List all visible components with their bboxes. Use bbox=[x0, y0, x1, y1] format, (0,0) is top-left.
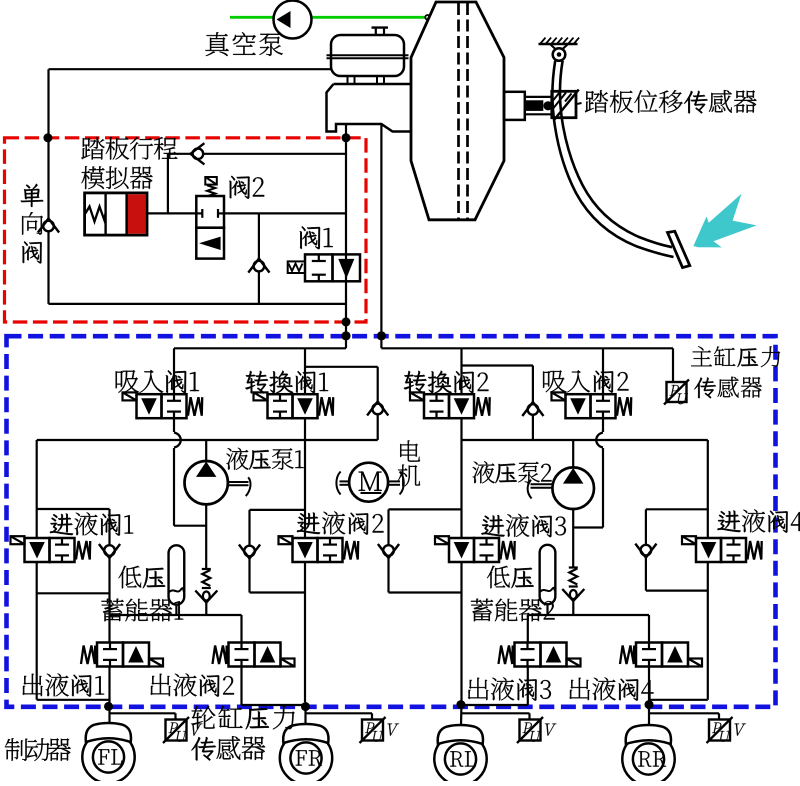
wire branch to check (right) bbox=[462, 366, 533, 441]
brake booster shell bbox=[411, 2, 504, 220]
pedal pivot bbox=[553, 48, 566, 61]
wire 转换阀1 through line bbox=[304, 348, 306, 702]
wire accumulator line 1 bbox=[110, 614, 242, 616]
label 进液阀2 bbox=[297, 511, 384, 534]
check valve row1 right bbox=[522, 402, 543, 416]
wire accumulator line 2 bbox=[528, 614, 649, 616]
wire FR wheel drop bbox=[304, 702, 306, 726]
label 传感器(主缸) bbox=[694, 377, 762, 399]
pushrod bbox=[525, 97, 553, 114]
valve 阀1 closed marks bbox=[312, 254, 326, 281]
label 低压(2) bbox=[487, 566, 534, 589]
label 进液阀1 bbox=[50, 512, 133, 535]
wire branch 进液阀1 to check bbox=[37, 509, 110, 544]
label 吸入阀1 bbox=[116, 370, 199, 393]
valve 转换阀2 bbox=[410, 392, 490, 418]
pedal pivot mount bbox=[539, 38, 580, 51]
check valve wheel FL bbox=[99, 544, 120, 558]
wheel pressure sensor FL bbox=[163, 717, 202, 743]
label 单向阀 bbox=[21, 184, 44, 264]
label 主缸压力 bbox=[691, 346, 780, 367]
red dashed boundary box bbox=[5, 138, 367, 322]
wheel pressure sensor RL bbox=[517, 717, 556, 743]
valve 进液阀3 bbox=[435, 536, 515, 562]
wire FR sensor stub bbox=[306, 713, 373, 720]
label 转换阀2 bbox=[404, 371, 489, 394]
valve 出液阀3 bbox=[499, 643, 581, 667]
valve 阀1 flow arrow bbox=[338, 259, 354, 279]
pedal displacement sensor bbox=[552, 90, 582, 121]
brake wheel cylinder RR bbox=[622, 725, 674, 785]
wire master cylinder direct line bbox=[380, 124, 382, 348]
valve 进液阀1 bbox=[11, 536, 91, 562]
label 蓄能器2 bbox=[471, 599, 555, 622]
wire HCU left top bus bbox=[174, 347, 346, 349]
pedal pad bbox=[668, 231, 690, 267]
master pressure sensor bbox=[664, 380, 689, 405]
wire HCU right top bus bbox=[381, 348, 673, 382]
label 转换阀1 bbox=[245, 371, 328, 394]
label 进液阀3 bbox=[481, 514, 565, 537]
label 阀2 bbox=[229, 176, 264, 199]
wheel pressure sensor RR bbox=[707, 717, 746, 743]
reservoir legs bbox=[348, 76, 385, 84]
wire pump bus right bbox=[462, 439, 708, 441]
low pressure accumulator 1 bbox=[169, 545, 185, 615]
booster diaphragm dashed lines bbox=[459, 3, 468, 219]
wire branch up to top check bbox=[168, 154, 346, 214]
low pressure accumulator 2 bbox=[540, 545, 556, 615]
label 踏板位移传感器 bbox=[585, 90, 757, 113]
brake wheel cylinder FR bbox=[280, 724, 332, 784]
wire motor bypass bbox=[389, 509, 462, 544]
wire 出液阀4 line bbox=[648, 615, 650, 726]
check valve row1 left bbox=[367, 402, 388, 416]
valve 吸入阀1 bbox=[123, 392, 203, 418]
wire 进液阀4 line bbox=[649, 440, 708, 700]
wire 转换阀2 through line bbox=[460, 348, 462, 702]
check valve wheel RR bbox=[635, 544, 656, 558]
wire reservoir supply top bbox=[49, 68, 332, 70]
node dot at red box top-left bbox=[43, 133, 52, 142]
wire check FL down bbox=[108, 558, 110, 643]
label 传感器(轮缸) bbox=[191, 736, 265, 760]
wire branch down check bbox=[258, 213, 260, 304]
blue dashed boundary box bbox=[7, 336, 776, 707]
spring check valve 2 bbox=[562, 568, 584, 616]
hydraulic pump 液压泵1 bbox=[185, 440, 251, 504]
spring check valve 1 bbox=[195, 569, 217, 615]
wire 进液阀1 line bbox=[37, 440, 110, 700]
valve 阀1 spring box bbox=[288, 261, 305, 273]
wire 吸入阀2 drop bbox=[573, 348, 603, 527]
wire check RL to main bbox=[389, 558, 462, 593]
label 液压泵2 bbox=[472, 461, 551, 483]
wheel pressure sensor FR bbox=[360, 717, 399, 743]
electric motor 电机 bbox=[336, 463, 403, 502]
hydraulic pump 液压泵2 bbox=[528, 440, 594, 509]
valve 阀2 solenoid and spring bbox=[205, 177, 217, 196]
label 出液阀3 bbox=[468, 677, 551, 700]
wire branch 进液阀4 to check bbox=[646, 509, 708, 544]
wire simulator output bbox=[147, 212, 196, 214]
label 出液阀2 bbox=[150, 673, 234, 696]
label 蓄能器1 bbox=[101, 599, 183, 622]
wire FL sensor stub bbox=[109, 713, 176, 720]
pedal arm bbox=[552, 61, 673, 257]
label 轮缸压力 bbox=[192, 706, 295, 730]
wire red box bottom run bbox=[49, 303, 347, 305]
valve 阀1 body bbox=[305, 254, 360, 281]
reservoir fluid lines bbox=[327, 55, 409, 58]
valve 阀2 flow arrow bbox=[199, 237, 221, 250]
brake wheel cylinder RL bbox=[434, 725, 486, 785]
wire 出液阀2 line bbox=[242, 615, 306, 705]
label 制动器 bbox=[5, 738, 71, 761]
label 阀1 bbox=[300, 226, 333, 249]
wire 吸入阀1 drop bbox=[174, 348, 206, 525]
check valve top branch bbox=[190, 143, 204, 164]
valve 进液阀4 bbox=[682, 536, 762, 562]
check valve wheel FR bbox=[239, 545, 260, 559]
wire RR sensor stub bbox=[649, 713, 719, 720]
reservoir tank bbox=[331, 28, 404, 76]
check valve wheel RL bbox=[378, 544, 399, 558]
label 出液阀4 bbox=[569, 677, 653, 700]
wire 出液阀3 line bbox=[462, 615, 528, 705]
label 电机 bbox=[398, 440, 420, 486]
press direction arrow (cyan) bbox=[693, 194, 756, 248]
label 出液阀1 bbox=[22, 673, 104, 696]
wire check RR to 进液阀4 line bbox=[646, 558, 708, 591]
wire 出液阀1 line bbox=[108, 667, 110, 726]
wire master-cylinder to HCU (valve1 line) bbox=[345, 124, 347, 348]
valve 吸入阀2 bbox=[552, 392, 632, 418]
check valve 单向阀 bbox=[38, 219, 59, 233]
wire loop check FR bbox=[250, 510, 306, 545]
wire pump2 suction bbox=[572, 509, 574, 568]
node dots on valve1 line bbox=[341, 133, 350, 340]
wire 阀2 to main line bbox=[224, 212, 346, 214]
label 吸入阀2 bbox=[543, 370, 628, 392]
wire check FR to main bbox=[250, 559, 306, 593]
valve 阀2 body bbox=[196, 196, 224, 259]
label 真空泵 bbox=[205, 32, 282, 56]
wire check valve branch (left) bbox=[47, 69, 49, 304]
pushrod housing bbox=[504, 92, 525, 120]
brake wheel cylinder FL bbox=[82, 723, 134, 783]
valve 阀2 closed port marks bbox=[196, 209, 224, 218]
wire pump1 suction bbox=[205, 504, 207, 569]
valve 转换阀1 bbox=[254, 392, 334, 418]
valve 出液阀2 bbox=[213, 643, 295, 667]
node dots wheel lines bbox=[104, 700, 654, 711]
wire branch to check (left) bbox=[305, 367, 378, 440]
master cylinder body bbox=[327, 84, 412, 132]
wire pump bus left bbox=[37, 439, 378, 441]
wire vacuum line (green) bbox=[230, 15, 430, 20]
wire RL wheel drop bbox=[460, 702, 463, 726]
wire cross connect FL bbox=[37, 592, 110, 594]
label 踏板行程 bbox=[81, 137, 177, 160]
vacuum pump bbox=[274, 1, 312, 39]
check valve mid branch bbox=[248, 259, 269, 273]
valve 进液阀2 bbox=[279, 536, 359, 562]
label 模拟器 bbox=[81, 166, 152, 189]
wire RL sensor stub bbox=[461, 713, 530, 720]
node dot MC line at blue boundary bbox=[377, 331, 386, 340]
label 低压(1) bbox=[118, 566, 165, 589]
label 进液阀4 bbox=[717, 509, 800, 532]
pedal travel simulator bbox=[85, 193, 147, 235]
label 液压泵1 bbox=[226, 448, 303, 470]
valve 出液阀1 bbox=[81, 643, 163, 667]
valve 出液阀4 bbox=[620, 643, 702, 667]
